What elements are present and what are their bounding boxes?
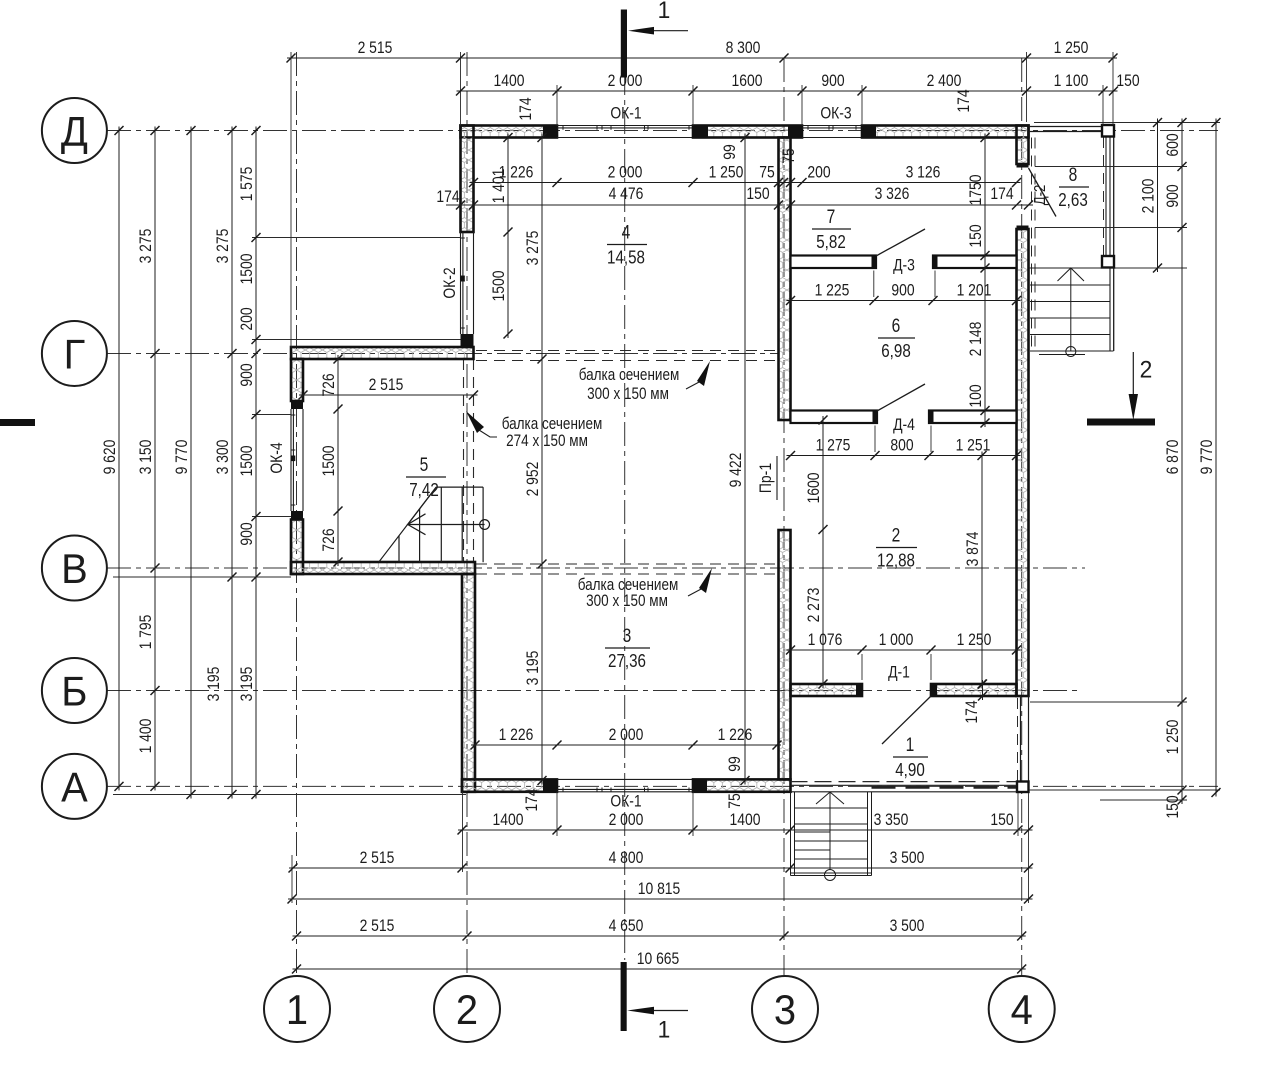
svg-text:1600: 1600 — [732, 72, 763, 91]
svg-text:балка сечением: балка сечением — [502, 415, 603, 434]
door Д-3 leaf — [876, 229, 925, 256]
svg-text:274 х 150 мм: 274 х 150 мм — [506, 432, 588, 451]
svg-text:4 800: 4 800 — [609, 849, 644, 868]
svg-text:174: 174 — [523, 788, 542, 812]
svg-text:900: 900 — [891, 281, 915, 300]
porch landing line 2 — [1035, 227, 1103, 229]
svg-text:726: 726 — [320, 373, 339, 396]
room 6 top wall left segment (door Д-3 wall) — [791, 256, 877, 269]
svg-text:6,98: 6,98 — [881, 341, 911, 362]
svg-text:3: 3 — [623, 625, 632, 647]
beam 300x150 along Г dashed pair — [476, 350, 779, 352]
stairs room 5 top edge — [436, 486, 483, 488]
svg-text:8 300: 8 300 — [726, 39, 761, 58]
dimension column 3874 room 2 — [981, 452, 983, 689]
extension lines top — [290, 52, 292, 347]
svg-text:2 000: 2 000 — [609, 811, 644, 830]
stairs room 5 winder fan line — [408, 487, 437, 524]
terrace right dashed line — [1017, 698, 1019, 781]
entrance stairs bottom edge — [791, 872, 872, 874]
svg-text:2 273: 2 273 — [805, 588, 824, 623]
axis circle А — [42, 754, 107, 819]
svg-text:3 195: 3 195 — [238, 667, 257, 702]
svg-text:8: 8 — [1069, 164, 1078, 186]
svg-text:1: 1 — [658, 1016, 671, 1043]
svg-text:1 575: 1 575 — [238, 167, 257, 202]
svg-text:А: А — [61, 763, 88, 810]
room 6 bottom wall left segment (door Д-4 wall) — [791, 411, 878, 424]
terrace bottom heavy dashes — [872, 786, 1017, 789]
svg-text:150: 150 — [990, 811, 1014, 830]
projection bottom wall (axis В) — [291, 562, 475, 574]
svg-text:174: 174 — [955, 89, 974, 113]
svg-text:4 650: 4 650 — [609, 917, 644, 936]
section 1-1 trace line — [624, 71, 626, 960]
svg-text:1400: 1400 — [494, 72, 525, 91]
entrance stairs direction arrow — [829, 792, 831, 870]
svg-text:1 275: 1 275 — [816, 436, 851, 455]
svg-text:174: 174 — [436, 188, 460, 207]
door Д-4 jamb extension lines — [874, 426, 876, 453]
svg-text:900: 900 — [821, 72, 845, 91]
svg-text:100: 100 — [967, 384, 986, 408]
dimension row 4476 / 150 and 3326 / 174 — [446, 204, 783, 206]
porch landing line 1 — [1035, 166, 1103, 168]
axis circle 4 — [989, 976, 1055, 1042]
svg-text:1 400: 1 400 — [137, 718, 156, 753]
axis line 4 (vertical) — [1021, 58, 1023, 977]
svg-text:150: 150 — [746, 185, 770, 204]
svg-text:балка сечением: балка сечением — [579, 366, 680, 385]
dimension column 1750 / 150 / 2148 / 100 in rooms 7-6 — [984, 134, 986, 428]
svg-text:9 620: 9 620 — [101, 439, 120, 474]
extension lines left — [113, 794, 466, 796]
svg-text:3 300: 3 300 — [214, 439, 233, 474]
axis circle Б — [42, 658, 107, 723]
svg-text:300 х 150 мм: 300 х 150 мм — [586, 592, 668, 611]
svg-text:1 250: 1 250 — [709, 163, 744, 182]
right wall upper (axis 4, Д to door Д-2) — [1017, 126, 1029, 165]
svg-text:3 275: 3 275 — [214, 229, 233, 264]
dimension row bottom 3: 10815 — [288, 898, 1033, 900]
svg-text:800: 800 — [890, 436, 914, 455]
axis circle 2 — [434, 976, 500, 1042]
window OK-2 — [460, 232, 462, 334]
svg-text:2 515: 2 515 — [360, 917, 395, 936]
svg-text:1 250: 1 250 — [1054, 39, 1089, 58]
svg-text:2,63: 2,63 — [1058, 190, 1088, 211]
svg-text:1: 1 — [906, 734, 915, 756]
stairs room 5 treads — [398, 536, 400, 563]
svg-text:2 000: 2 000 — [608, 163, 643, 182]
svg-text:3 500: 3 500 — [890, 917, 925, 936]
svg-text:4,90: 4,90 — [895, 760, 925, 781]
svg-text:75: 75 — [726, 793, 745, 808]
entrance stairs right edge — [867, 792, 869, 876]
dimension column 726 / 150 / 726 at OK-4 — [337, 355, 339, 566]
dimension row bottom 5: 10665 — [293, 968, 1026, 970]
dimension column left 5: 1575 / 1500 / 200 / 900 / 1500 / 900 / 3195 — [255, 127, 257, 799]
svg-text:1500: 1500 — [238, 445, 257, 476]
svg-text:1 250: 1 250 — [957, 631, 992, 650]
svg-text:1 076: 1 076 — [808, 631, 843, 650]
extension lines right — [1034, 122, 1220, 124]
svg-text:1600: 1600 — [805, 472, 824, 503]
svg-text:6: 6 — [892, 315, 901, 337]
svg-text:1400: 1400 — [493, 811, 524, 830]
terrace bottom rails — [791, 784, 1017, 786]
svg-text:200: 200 — [807, 163, 831, 182]
section mark 1 bottom — [621, 962, 627, 1031]
svg-text:1 401: 1 401 — [490, 169, 509, 204]
dimension row room 6 top: 1225 / 900 / 1201 — [787, 300, 1021, 302]
svg-text:3 195: 3 195 — [524, 651, 543, 686]
svg-text:200: 200 — [238, 307, 257, 331]
svg-text:2 515: 2 515 — [358, 39, 393, 58]
svg-text:4: 4 — [1011, 986, 1033, 1033]
svg-text:В: В — [61, 545, 88, 592]
svg-text:1 100: 1 100 — [1054, 72, 1089, 91]
axis circle Г — [42, 321, 107, 386]
section mark 2 left edge — [0, 419, 35, 426]
porch stairs bottom edge — [1030, 350, 1114, 352]
window OK-1 top — [557, 125, 693, 127]
porch right rail lines — [1105, 127, 1107, 267]
wall on axis Б right segment — [931, 684, 1017, 696]
svg-text:75: 75 — [759, 163, 774, 182]
axis line Г (horizontal) — [107, 353, 778, 355]
bottom wall segment right — [693, 779, 791, 791]
svg-text:10 815: 10 815 — [638, 880, 681, 899]
wall on axis Б left segment with door jamb — [791, 684, 863, 696]
svg-text:10 665: 10 665 — [637, 950, 680, 969]
svg-text:726: 726 — [320, 528, 339, 551]
svg-text:1500: 1500 — [238, 253, 257, 284]
svg-text:99: 99 — [726, 756, 745, 771]
svg-text:5,82: 5,82 — [816, 232, 846, 253]
svg-text:3 275: 3 275 — [137, 229, 156, 264]
section mark 2 right — [1132, 352, 1134, 396]
axis line 1 (vertical) — [296, 52, 298, 977]
svg-text:3 874: 3 874 — [964, 531, 983, 566]
dimension row bottom 1: 1400 / 2000 / 1400 / 3350 / 150 — [458, 829, 1033, 831]
svg-text:4 476: 4 476 — [609, 185, 644, 204]
svg-text:150: 150 — [967, 224, 986, 248]
projection left wall lower part — [291, 511, 303, 520]
door Д-2 leaf — [1029, 168, 1057, 217]
dimension row room 6 bottom: 1275 / 800 / 1251 — [787, 455, 1021, 457]
stairs room 5 direction arrow — [408, 524, 485, 526]
svg-text:3 326: 3 326 — [875, 185, 910, 204]
window OK-3 — [802, 125, 862, 127]
beam 274x150 vertical dashed pair — [463, 359, 465, 562]
axis line Б (horizontal) — [107, 690, 1080, 692]
svg-text:Д-4: Д-4 — [893, 416, 915, 435]
svg-text:9 422: 9 422 — [727, 453, 746, 488]
svg-text:2 400: 2 400 — [927, 72, 962, 91]
svg-text:Пр-1: Пр-1 — [757, 463, 776, 493]
svg-text:ОК-2: ОК-2 — [441, 267, 460, 298]
svg-text:3 150: 3 150 — [137, 439, 156, 474]
dimension column 1401 / 1500 at OK-2 — [507, 134, 509, 339]
dimension column right 1: 2100 — [1157, 119, 1159, 273]
svg-text:174: 174 — [990, 185, 1014, 204]
axis line 2 (vertical) — [466, 52, 468, 977]
svg-text:Д-1: Д-1 — [888, 663, 910, 682]
svg-text:9 770: 9 770 — [173, 439, 192, 474]
svg-text:1 795: 1 795 — [137, 615, 156, 650]
svg-text:174: 174 — [517, 97, 536, 121]
dimension 174 wall at Б — [982, 680, 984, 700]
svg-text:9 770: 9 770 — [1198, 439, 1217, 474]
door Д-1 jamb extension lines — [861, 654, 863, 680]
axis line А (horizontal) — [107, 785, 1218, 787]
dimension column left 2: 3275 / 3150 / 1795 / 1400 — [154, 127, 156, 791]
door Д-4 leaf — [877, 384, 925, 411]
dimension column left 1: 9620 — [118, 127, 120, 791]
svg-text:Г: Г — [64, 331, 86, 378]
entrance stairs left edge — [790, 792, 792, 876]
wall on axis Г (projection top wall) — [291, 347, 474, 359]
axis circle 3 — [752, 976, 818, 1042]
entrance stairs treads — [795, 807, 868, 809]
section mark 1 top — [621, 10, 627, 78]
left wall lower (В to А) — [462, 574, 475, 792]
dimension column 3275 / 2952 / 3195 inside rooms 4-3 — [541, 134, 543, 785]
svg-text:3: 3 — [774, 986, 796, 1033]
svg-text:2 000: 2 000 — [609, 726, 644, 745]
svg-text:1 201: 1 201 — [957, 281, 992, 300]
axis circle В — [42, 536, 107, 601]
svg-text:ОК-1: ОК-1 — [610, 104, 641, 123]
axis line В (horizontal) — [107, 567, 1085, 569]
svg-text:Д-2: Д-2 — [1032, 185, 1049, 206]
dimension column left 3: 9770 — [190, 127, 192, 799]
svg-text:174: 174 — [963, 700, 982, 724]
window OK-4 — [290, 409, 292, 511]
svg-text:ОК-1: ОК-1 — [610, 792, 641, 811]
svg-text:1 226: 1 226 — [499, 726, 534, 745]
svg-text:1 000: 1 000 — [879, 631, 914, 650]
svg-text:7: 7 — [827, 206, 836, 228]
svg-text:150: 150 — [1164, 795, 1183, 819]
axis line 3 (vertical) — [783, 58, 785, 977]
axis line Д (horizontal) — [107, 130, 1218, 132]
svg-text:2: 2 — [1140, 356, 1153, 383]
svg-text:3 126: 3 126 — [906, 163, 941, 182]
stairs room 5 right edge — [482, 487, 484, 562]
svg-text:900: 900 — [238, 363, 257, 387]
svg-text:1400: 1400 — [730, 811, 761, 830]
dimension row bottom wall inside: 1226 / 2000 / 1226 — [471, 744, 781, 746]
svg-text:5: 5 — [420, 454, 429, 476]
svg-text:600: 600 — [1164, 133, 1183, 157]
svg-text:2: 2 — [892, 524, 901, 546]
porch dashed boundary lines — [1031, 138, 1033, 352]
svg-text:ОК-3: ОК-3 — [820, 104, 851, 123]
svg-text:300 х 150 мм: 300 х 150 мм — [587, 385, 669, 404]
svg-text:12,88: 12,88 — [877, 550, 915, 571]
svg-text:2 515: 2 515 — [369, 376, 404, 395]
bottom wall segment left (axis А) — [462, 779, 557, 791]
svg-text:150: 150 — [1116, 72, 1140, 91]
dimension row top 1: 2515 / 8300 / 1250 — [287, 57, 1117, 59]
svg-text:4: 4 — [622, 221, 631, 243]
svg-text:1500: 1500 — [490, 270, 509, 301]
dimension 2515 in projection — [299, 394, 478, 396]
svg-text:75: 75 — [780, 148, 799, 163]
svg-text:2 148: 2 148 — [967, 322, 986, 357]
room 6 bottom wall right segment — [929, 411, 1017, 424]
svg-text:900: 900 — [1164, 184, 1183, 208]
porch stairs exit line — [1039, 354, 1085, 356]
dimension row door Д-1: 1076 / 1000 / 1250 — [787, 649, 1021, 651]
door Д-3 jamb extension lines — [873, 271, 875, 298]
porch corner post bottom — [1102, 256, 1114, 268]
beam 300x150 along В dashed pair — [476, 563, 779, 565]
dimension column 9422 — [744, 134, 746, 785]
dimension column 1600 / 2273 at Пр-1 — [822, 416, 824, 688]
svg-text:900: 900 — [238, 522, 257, 546]
svg-text:2 952: 2 952 — [524, 462, 543, 497]
door Д-1 leaf — [882, 696, 931, 744]
stairs room 5 diagonal break line — [379, 487, 437, 562]
svg-text:7,42: 7,42 — [409, 480, 439, 501]
dimension row bottom 2: 2515 / 4800 / 3500 — [289, 867, 1033, 869]
top wall segment middle — [693, 126, 802, 138]
svg-text:1: 1 — [658, 0, 671, 23]
svg-text:1: 1 — [286, 986, 308, 1033]
svg-text:2 100: 2 100 — [1139, 178, 1158, 213]
terrace bottom dashed line — [791, 781, 1017, 783]
svg-text:1 225: 1 225 — [815, 281, 850, 300]
svg-text:Б: Б — [61, 668, 87, 715]
dimension row top 2: 1400 / 2000 / 1600 / 900 / 2400 / 1100 / 150 — [457, 90, 1118, 92]
extension lines bottom — [462, 792, 464, 872]
dimension column left 4: 3275 / 3300 / 3195 — [231, 127, 233, 799]
top wall segment left (axis Д) — [461, 126, 558, 138]
svg-text:1500: 1500 — [320, 445, 339, 476]
svg-text:3 500: 3 500 — [890, 849, 925, 868]
svg-text:Д: Д — [61, 108, 88, 155]
svg-text:2: 2 — [456, 986, 478, 1033]
svg-text:2 515: 2 515 — [360, 849, 395, 868]
porch stairs top edge — [1029, 267, 1158, 269]
left wall upper (Д to Г) — [461, 126, 474, 233]
dimension row bottom 4: 2515 / 4650 / 3500 — [293, 935, 1026, 937]
svg-text:27,36: 27,36 — [608, 651, 646, 672]
porch corner post top — [1102, 125, 1114, 137]
top wall segment right — [862, 126, 1029, 138]
porch stairs treads — [1030, 284, 1110, 286]
terrace corner post — [1017, 782, 1029, 793]
room 6 top wall right segment — [933, 256, 1017, 269]
interior wall x3 upper segment (rooms 4/7) — [779, 138, 791, 421]
dimension row room 4 top: 1226 / 2000 / 1250 / 75 / 200 / 3126 — [470, 182, 1021, 184]
terrace right rail double line — [1020, 696, 1022, 781]
window OK-1 bottom — [557, 778, 693, 780]
svg-text:99: 99 — [721, 144, 740, 159]
porch stairs direction arrow — [1070, 268, 1072, 352]
svg-text:6 870: 6 870 — [1164, 439, 1183, 474]
svg-text:1750: 1750 — [967, 174, 986, 205]
dimension column right 3: 9770 — [1215, 119, 1217, 797]
svg-text:3 350: 3 350 — [874, 811, 909, 830]
svg-text:1 250: 1 250 — [1164, 719, 1183, 754]
axis circle 1 — [264, 976, 330, 1042]
svg-text:3 275: 3 275 — [524, 231, 543, 266]
svg-text:14,58: 14,58 — [607, 247, 645, 268]
left wall jamb below OK-2 — [461, 334, 474, 347]
projection left wall upper part — [291, 359, 303, 401]
axis circle Д — [42, 98, 107, 163]
svg-text:Д-3: Д-3 — [893, 256, 915, 275]
dimension column right 2: 600 / 900 / 6870 / 1250 / 150 — [1181, 119, 1183, 805]
interior wall x3 lower segment (rooms 3/2) — [779, 530, 791, 779]
svg-text:1 226: 1 226 — [718, 726, 753, 745]
porch top edge double line — [1029, 126, 1114, 128]
svg-text:3 195: 3 195 — [205, 667, 224, 702]
svg-text:ОК-4: ОК-4 — [268, 442, 287, 474]
right wall lower (door Д-2 to Б) — [1017, 226, 1029, 230]
